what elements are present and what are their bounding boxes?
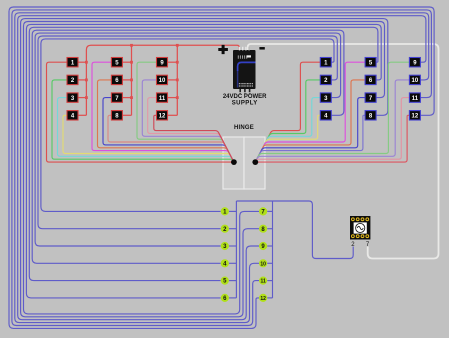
wire hinge left 5 <box>92 62 234 162</box>
node point 12 <box>259 294 267 302</box>
wire hinge right 11 <box>255 98 409 163</box>
wire stub point 5 to common <box>229 280 237 282</box>
node point 1 <box>221 207 229 215</box>
terminal block right 6 <box>365 75 376 84</box>
wire hinge left 1 <box>47 62 234 162</box>
terminal block right 8 <box>365 111 376 120</box>
node point 4 <box>221 259 229 267</box>
wire neutral: supply minus to AC source pin 7 <box>248 44 439 259</box>
node hinge pivot left <box>231 159 237 165</box>
wire stub point 10 to common <box>267 262 272 264</box>
svg-text:HINGE: HINGE <box>234 125 254 131</box>
terminal block right 12 <box>409 111 420 120</box>
wire hinge left 7 <box>103 98 234 163</box>
label 24VDC POWER SUPPLY <box>223 94 267 107</box>
terminal block left 5 <box>111 58 122 67</box>
terminal block right 5 <box>365 58 376 67</box>
wire hinge right 5 <box>255 62 365 162</box>
wire stub point 6 to common <box>229 297 237 299</box>
wire loop 6: point 6 to door block 6 <box>26 24 381 298</box>
terminal block left 2 <box>67 75 78 84</box>
wire stub block 1 to +24V bus <box>78 61 86 63</box>
wire stub block 9 to +24V bus <box>168 61 178 63</box>
svg-text:11: 11 <box>159 96 166 102</box>
wire stub point 1 to common <box>229 210 237 212</box>
wire stub point 4 to common <box>229 262 237 264</box>
terminal block left 12 <box>157 111 168 120</box>
wire stub block 7 to +24V bus <box>122 97 131 99</box>
wire stub point 8 to common <box>267 228 272 230</box>
wire stub block 5 to +24V bus <box>122 61 131 63</box>
wire common bus points 1-6 <box>235 201 237 298</box>
terminal block left 1 <box>67 58 78 67</box>
node point 10 <box>259 259 267 267</box>
svg-text:12: 12 <box>260 296 266 302</box>
terminal block left 10 <box>157 75 168 84</box>
wire hinge right 9 <box>255 62 409 162</box>
svg-text:10: 10 <box>412 78 419 84</box>
wire common bus 7-12 riser <box>272 200 274 202</box>
wire common bus points 7-12 <box>272 201 274 298</box>
svg-text:11: 11 <box>260 279 266 285</box>
wire hinge right 6 <box>255 80 365 162</box>
label + plus terminal <box>218 45 228 54</box>
wire stub block 10 to +24V bus <box>168 79 178 81</box>
wire hinge right 7 <box>255 98 365 163</box>
wire +24V bus column 2 <box>131 45 133 115</box>
terminal block left 11 <box>157 93 168 102</box>
node point 6 <box>221 294 229 302</box>
wire stub point 2 to common <box>229 228 237 230</box>
wire +24V bus column 3 <box>176 45 178 115</box>
wire hinge left 3 <box>58 98 234 163</box>
terminal block right 7 <box>365 93 376 102</box>
power supply PS1 24VDC <box>233 47 256 95</box>
wire stub point 11 to common <box>267 280 272 282</box>
svg-text:12: 12 <box>412 114 419 120</box>
hinge leaf left <box>223 137 244 189</box>
terminal block left 8 <box>111 111 122 120</box>
wire stub block 6 to +24V bus <box>122 79 131 81</box>
wire hinge left 2 <box>52 80 234 162</box>
wire loop 5: point 5 to door block 5 <box>29 27 378 280</box>
wire loop 4: point 4 to door block 4 <box>32 30 344 263</box>
pin label 2 <box>351 242 355 248</box>
terminal block left 6 <box>111 75 122 84</box>
pin label 7 <box>366 242 370 248</box>
terminal block right 4 <box>320 111 331 120</box>
hinge leaf right <box>244 137 265 189</box>
node point 5 <box>221 277 229 285</box>
terminal block left 4 <box>67 111 78 120</box>
wire +24V rail <box>86 45 239 115</box>
terminal block right 11 <box>409 93 420 102</box>
node point 2 <box>221 225 229 233</box>
terminal block right 3 <box>320 93 331 102</box>
wire hinge right 10 <box>255 80 409 162</box>
node point 9 <box>259 242 267 250</box>
wire hinge left 11 <box>148 98 234 163</box>
wire stub block 8 to +24V bus <box>122 114 131 116</box>
wire stub point 9 to common <box>267 245 272 247</box>
wire stub point 7 to common <box>267 210 272 212</box>
wire loop 3: point 3 to door block 3 <box>35 33 341 246</box>
terminal block left 3 <box>67 93 78 102</box>
node hinge pivot right <box>252 159 258 165</box>
wire hinge left 4 <box>63 115 234 162</box>
wire hinge right 8 <box>255 115 365 162</box>
wire loop 8: point 8 to door block 8 <box>21 19 388 317</box>
terminal block right 9 <box>409 58 420 67</box>
node point 7 <box>259 207 267 215</box>
wire hinge left 8 <box>108 115 234 162</box>
node point 11 <box>259 277 267 285</box>
label - minus terminal <box>259 47 264 50</box>
node point 8 <box>259 225 267 233</box>
wire hinge right 2 <box>255 80 320 162</box>
terminal block left 7 <box>111 93 122 102</box>
wire stub block 11 to +24V bus <box>168 97 178 99</box>
wire hinge right 3 <box>255 98 320 163</box>
terminal block right 2 <box>320 75 331 84</box>
wire stub point 3 to common <box>229 245 237 247</box>
terminal block left 9 <box>157 58 168 67</box>
svg-text:24VDC POWER: 24VDC POWER <box>223 94 267 100</box>
wire hinge right 4 <box>255 115 320 162</box>
wire stub block 12 to +24V bus <box>168 114 178 116</box>
wire hinge left 9 <box>137 62 234 162</box>
AC source U1 <box>350 216 370 240</box>
svg-text:10: 10 <box>260 261 266 267</box>
svg-text:SUPPLY: SUPPLY <box>232 101 258 107</box>
wire hinge left 10 <box>142 80 234 162</box>
terminal block right 10 <box>409 75 420 84</box>
wire loop 2: point 2 to door block 2 <box>38 36 337 229</box>
svg-text:11: 11 <box>412 96 419 102</box>
wire stub block 3 to +24V bus <box>78 97 86 99</box>
svg-text:12: 12 <box>159 114 166 120</box>
wire hinge right 1 <box>255 62 320 162</box>
junction dots +24V buses <box>85 44 179 99</box>
wire hinge left 6 <box>98 80 234 162</box>
wire stub block 4 to +24V bus <box>78 114 86 116</box>
node point 3 <box>221 242 229 250</box>
wire hinge left 12 <box>154 115 234 162</box>
wire common to AC source pin 2 <box>236 201 353 259</box>
terminal block right 1 <box>320 58 331 67</box>
wire loop 1: point 1 to door block 1 <box>41 39 334 212</box>
wire loop 7: point 7 to door block 7 <box>24 22 385 314</box>
svg-text:10: 10 <box>159 78 166 84</box>
wire stub block 2 to +24V bus <box>78 79 86 81</box>
wire stub point 12 to common <box>267 297 272 299</box>
label HINGE <box>234 125 254 131</box>
wire hinge right 12 <box>255 115 409 162</box>
